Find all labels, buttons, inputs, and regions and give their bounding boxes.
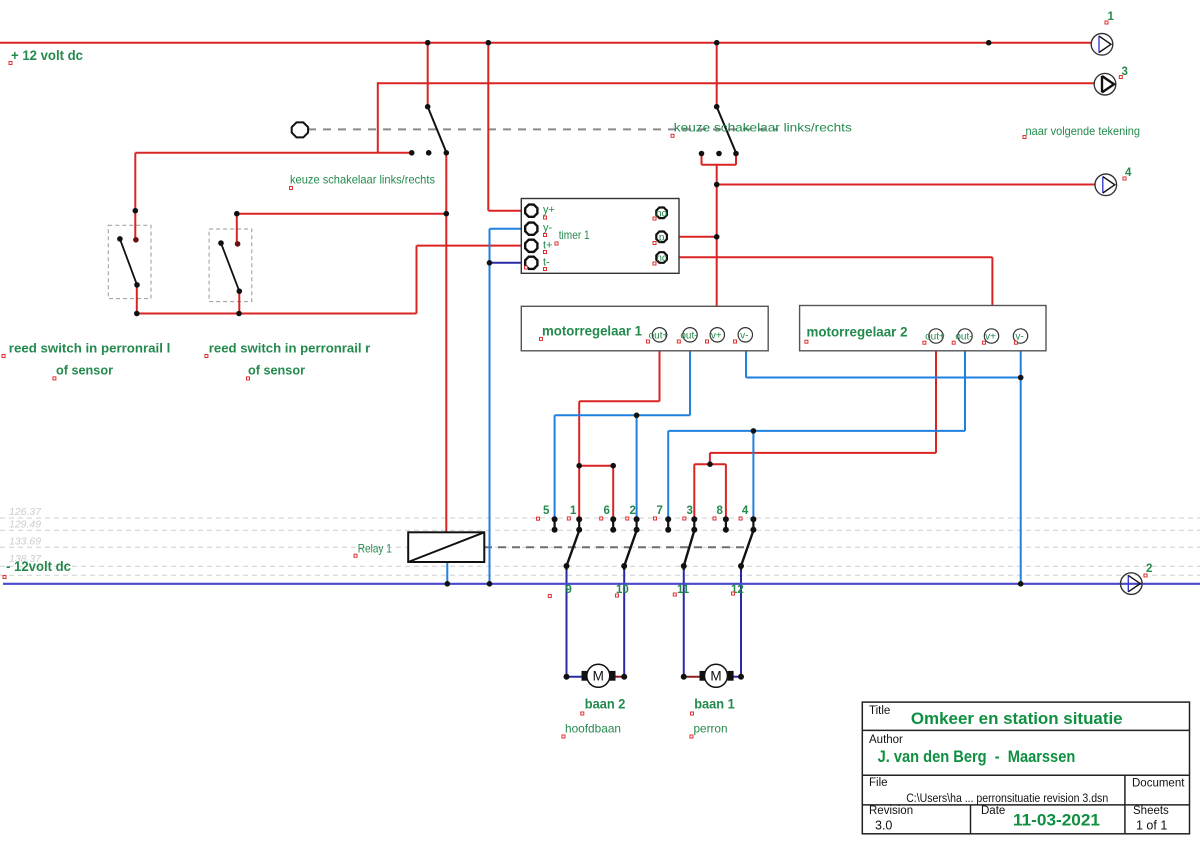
svg-text:Author: Author (869, 734, 903, 746)
svg-text:6: 6 (604, 505, 610, 517)
svg-text:t-: t- (543, 256, 550, 268)
svg-text:M: M (710, 669, 721, 684)
svg-text:3: 3 (687, 505, 693, 517)
svg-text:133.69: 133.69 (9, 536, 41, 548)
svg-text:9: 9 (565, 584, 571, 596)
svg-text:keuze schakelaar links/rechts: keuze schakelaar links/rechts (674, 120, 852, 134)
svg-text:C:\Users\ha ... perronsituatie: C:\Users\ha ... perronsituatie revision … (906, 791, 1108, 805)
svg-text:126.37: 126.37 (9, 506, 42, 518)
svg-text:y+: y+ (543, 204, 555, 216)
svg-text:hoofdbaan: hoofdbaan (565, 721, 621, 735)
svg-text:7: 7 (657, 505, 663, 517)
svg-text:baan 2: baan 2 (585, 696, 626, 711)
svg-text:baan 1: baan 1 (694, 696, 735, 711)
svg-text:v-: v- (740, 331, 748, 342)
svg-text:2: 2 (630, 505, 636, 517)
svg-text:129.49: 129.49 (9, 519, 41, 531)
svg-text:Revision: Revision (869, 805, 913, 817)
svg-text:5: 5 (543, 505, 550, 517)
svg-text:2: 2 (1146, 563, 1152, 575)
svg-text:Title: Title (869, 705, 890, 717)
svg-text:p: p (659, 233, 665, 244)
svg-text:v+: v+ (711, 331, 722, 342)
svg-text:4: 4 (742, 505, 749, 517)
svg-text:1: 1 (1108, 11, 1115, 23)
svg-text:Document: Document (1132, 778, 1185, 790)
svg-text:3.0: 3.0 (875, 819, 892, 833)
svg-text:1 of 1: 1 of 1 (1136, 819, 1167, 833)
svg-text:reed switch in perronrail r: reed switch in perronrail r (209, 340, 370, 355)
svg-text:out-: out- (955, 332, 972, 343)
svg-text:out+: out+ (649, 331, 669, 342)
svg-text:motorregelaar 1: motorregelaar 1 (542, 324, 642, 339)
svg-text:1: 1 (570, 505, 577, 517)
svg-text:+ 12 volt dc: + 12 volt dc (11, 48, 83, 63)
svg-text:Relay 1: Relay 1 (358, 542, 392, 556)
svg-text:naar volgende tekening: naar volgende tekening (1026, 124, 1141, 138)
svg-text:Omkeer en station situatie: Omkeer en station situatie (911, 709, 1123, 728)
svg-text:y-: y- (543, 222, 553, 234)
svg-text:reed switch in perronrail l: reed switch in perronrail l (9, 340, 171, 355)
svg-text:keuze schakelaar links/rechts: keuze schakelaar links/rechts (290, 173, 435, 187)
svg-text:- 12volt dc: - 12volt dc (6, 559, 71, 574)
svg-text:no: no (656, 209, 668, 220)
svg-text:Sheets: Sheets (1133, 805, 1169, 817)
svg-text:J. van den Berg - Maarssen: J. van den Berg - Maarssen (878, 747, 1076, 766)
svg-text:11-03-2021: 11-03-2021 (1013, 810, 1100, 829)
svg-text:of sensor: of sensor (248, 363, 305, 378)
svg-text:out-: out- (680, 331, 697, 342)
svg-text:motorregelaar 2: motorregelaar 2 (807, 324, 908, 339)
svg-text:11: 11 (677, 584, 690, 596)
svg-text:nc: nc (656, 253, 667, 264)
svg-text:perron: perron (694, 721, 728, 735)
svg-text:of sensor: of sensor (56, 363, 113, 378)
svg-text:8: 8 (717, 505, 724, 517)
svg-text:File: File (869, 777, 888, 789)
svg-text:out+: out+ (925, 332, 945, 343)
svg-text:M: M (593, 669, 604, 684)
svg-text:t+: t+ (543, 239, 552, 251)
svg-text:v+: v+ (985, 332, 996, 343)
svg-text:timer 1: timer 1 (559, 228, 590, 242)
svg-text:Date: Date (981, 805, 1005, 817)
